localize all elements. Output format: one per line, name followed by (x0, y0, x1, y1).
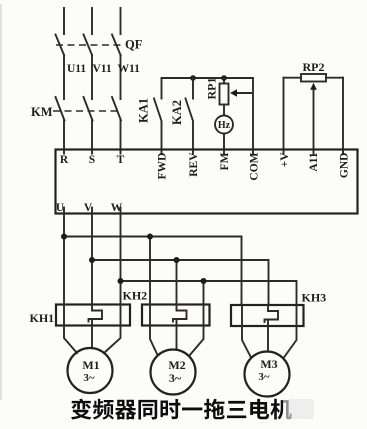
svg-text:M3: M3 (260, 357, 277, 371)
svg-text:REV: REV (188, 152, 200, 177)
svg-text:3~: 3~ (83, 372, 95, 384)
svg-text:KA1: KA1 (137, 98, 151, 123)
svg-text:S: S (89, 154, 95, 166)
svg-text:KH3: KH3 (302, 291, 327, 305)
svg-text:M2: M2 (168, 358, 185, 372)
svg-text:GND: GND (339, 153, 351, 179)
svg-text:M1: M1 (82, 358, 99, 372)
svg-text:W11: W11 (118, 63, 141, 75)
svg-text:COM: COM (249, 152, 261, 180)
svg-text:+V: +V (279, 152, 291, 168)
svg-text:KH1: KH1 (30, 311, 55, 325)
svg-text:QF: QF (125, 38, 143, 52)
svg-text:T: T (117, 154, 125, 166)
svg-text:KA2: KA2 (170, 100, 184, 125)
svg-text:Hz: Hz (218, 120, 231, 131)
svg-text:FM: FM (219, 152, 231, 170)
svg-text:V11: V11 (93, 63, 112, 75)
svg-text:RP2: RP2 (303, 60, 325, 74)
svg-text:3~: 3~ (258, 371, 270, 383)
svg-text:FWD: FWD (157, 153, 169, 180)
svg-text:RP1: RP1 (205, 78, 219, 100)
svg-text:3~: 3~ (169, 371, 182, 385)
svg-text:U11: U11 (67, 63, 86, 75)
svg-text:R: R (60, 154, 69, 166)
svg-text:KM: KM (31, 105, 53, 119)
svg-text:A11: A11 (308, 152, 320, 171)
svg-text:KH2: KH2 (123, 289, 148, 303)
